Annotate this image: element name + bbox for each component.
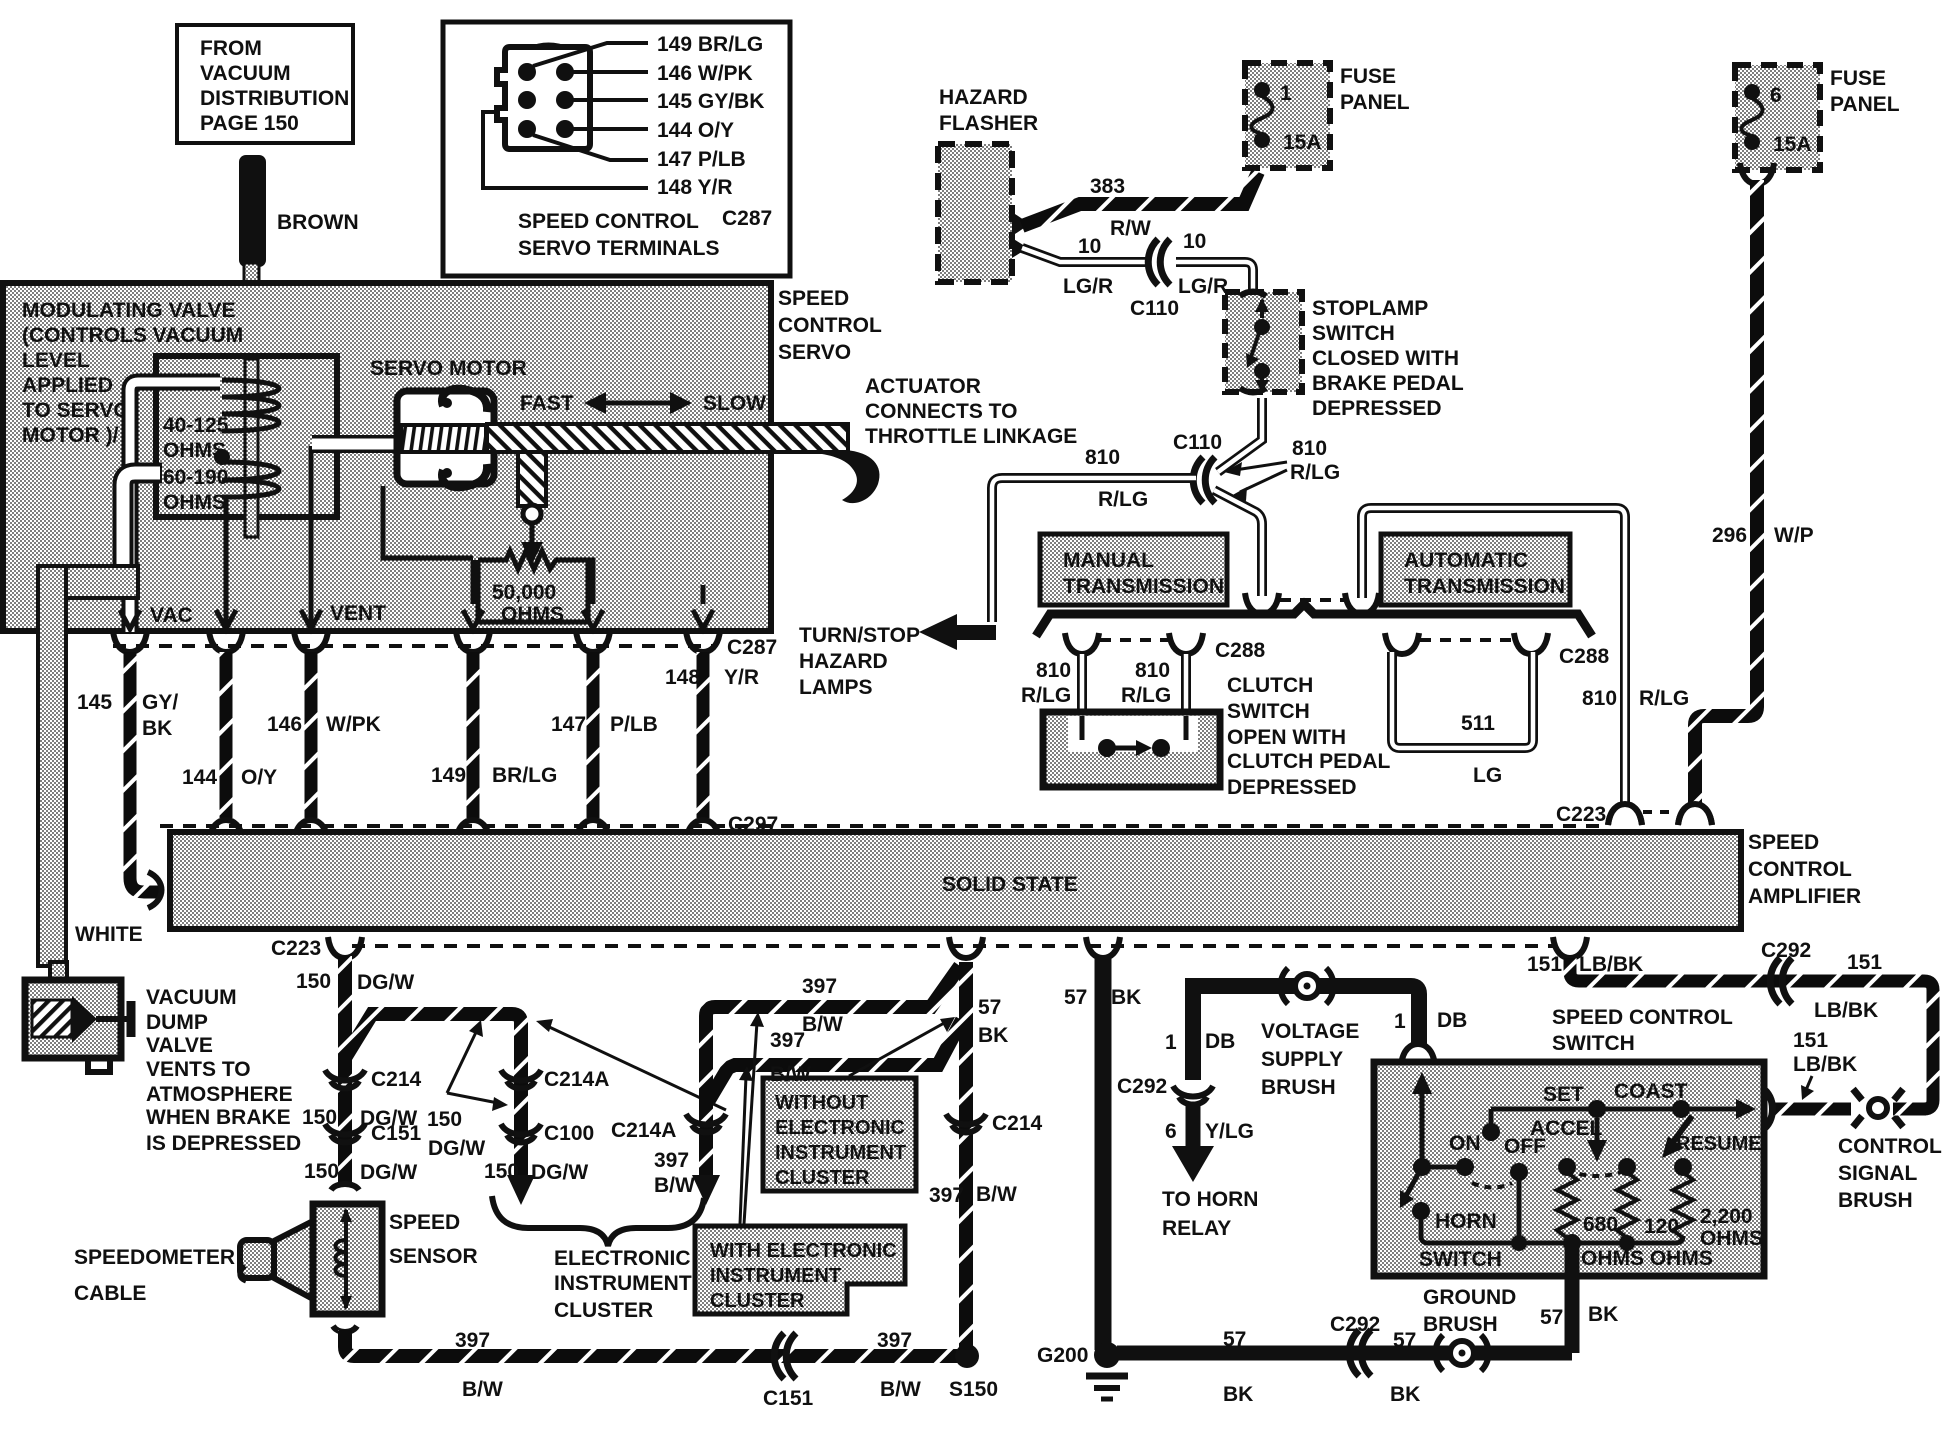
box SPEED CONTROL SERVO TERMINALS C287 [443, 22, 790, 276]
white hose to dump valve [75, 923, 143, 946]
svg-text:10: 10 [1183, 230, 1206, 253]
svg-text:STOPLAMP: STOPLAMP [1312, 297, 1428, 320]
svg-text:VALVE: VALVE [146, 1034, 213, 1057]
connector C287 pin diagram [497, 43, 590, 150]
svg-text:SIGNAL: SIGNAL [1838, 1162, 1918, 1185]
svg-text:C288: C288 [1559, 645, 1610, 668]
wire VAC 1 [130, 382, 220, 628]
svg-text:397: 397 [654, 1149, 689, 1172]
svg-text:BK: BK [1588, 1303, 1618, 1326]
label SPEED CONTROL SWITCH [1552, 1006, 1733, 1055]
ground brush [1423, 1286, 1516, 1371]
svg-text:C292: C292 [1330, 1313, 1380, 1336]
speed control switch box [1374, 1044, 1764, 1276]
svg-text:SPEED: SPEED [1748, 831, 1819, 854]
svg-text:VAC: VAC [150, 604, 193, 627]
svg-text:BK: BK [978, 1024, 1008, 1047]
label VACUUM DUMP VALVE [146, 986, 301, 1155]
label CLUTCH SWITCH [1227, 674, 1390, 799]
svg-text:BROWN: BROWN [277, 211, 359, 234]
labels 397 B/W wire2 [770, 1029, 811, 1086]
svg-text:150: 150 [302, 1106, 337, 1129]
label FAST SLOW arrow [520, 392, 766, 415]
label SPEEDOMETER CABLE [74, 1246, 235, 1305]
wire 57 BK ground run [1117, 1313, 1572, 1406]
svg-text:CLUTCH PEDAL: CLUTCH PEDAL [1227, 750, 1390, 773]
svg-text:RESUME: RESUME [1676, 1133, 1762, 1155]
svg-text:C287: C287 [722, 207, 772, 230]
C288 forks automatic [1385, 633, 1610, 668]
wire 397 B/W bottom [333, 1326, 958, 1410]
svg-text:RELAY: RELAY [1162, 1217, 1231, 1240]
svg-text:DB: DB [1437, 1009, 1467, 1032]
svg-text:810: 810 [1135, 659, 1170, 682]
wire 397 B/W lower link [709, 1020, 962, 1100]
svg-text:DEPRESSED: DEPRESSED [1312, 397, 1442, 420]
svg-text:BK: BK [1390, 1383, 1420, 1406]
svg-text:TO HORN: TO HORN [1162, 1188, 1258, 1211]
wires C288 to clutch switch [1021, 654, 1186, 714]
svg-text:511: 511 [1461, 712, 1495, 735]
svg-text:149: 149 [431, 764, 466, 787]
annotation arrow WITHOUT cluster [849, 1017, 955, 1076]
svg-text:IS DEPRESSED: IS DEPRESSED [146, 1132, 301, 1155]
wire 57 BK from switch [1540, 1248, 1618, 1353]
svg-text:SWITCH: SWITCH [1227, 700, 1310, 723]
svg-text:CONNECTS TO: CONNECTS TO [865, 400, 1017, 423]
white hose elbow [38, 566, 138, 966]
label SPEED SENSOR [389, 1211, 478, 1268]
svg-text:WITH ELECTRONIC: WITH ELECTRONIC [710, 1240, 897, 1262]
connector C292 to horn [1117, 1075, 1254, 1182]
wire 147 P/LB [587, 652, 600, 818]
svg-text:COAST: COAST [1614, 1080, 1688, 1103]
svg-text:W/PK: W/PK [326, 713, 381, 736]
svg-text:C288: C288 [1215, 639, 1266, 662]
svg-text:B/W: B/W [880, 1378, 921, 1401]
svg-text:810: 810 [1085, 446, 1120, 469]
label 151 LB/BK arrow [1793, 1029, 1857, 1100]
label ACTUATOR CONNECTS TO THROTTLE LINKAGE [865, 375, 1077, 448]
svg-text:6: 6 [1770, 84, 1782, 107]
svg-text:WHITE: WHITE [75, 923, 143, 946]
svg-text:C223: C223 [1556, 803, 1606, 826]
annotation 150 DG/W arrows [427, 1020, 508, 1160]
svg-text:LEVEL: LEVEL [22, 349, 90, 372]
wire 144 O/Y [220, 652, 233, 818]
svg-text:APPLIED: APPLIED [22, 374, 113, 397]
svg-text:OHMS: OHMS [501, 603, 564, 626]
svg-text:60-190: 60-190 [163, 466, 228, 489]
transmission bus bar [1036, 604, 1592, 636]
svg-text:FAST: FAST [520, 392, 574, 415]
svg-text:SERVO: SERVO [778, 341, 851, 364]
actuator shaft [487, 424, 848, 452]
svg-text:BRUSH: BRUSH [1261, 1076, 1336, 1099]
svg-text:50,000: 50,000 [492, 581, 556, 604]
svg-text:(CONTROLS VACUUM: (CONTROLS VACUUM [22, 324, 243, 347]
svg-text:150: 150 [427, 1108, 462, 1131]
svg-text:C110: C110 [1130, 297, 1179, 320]
svg-text:VACUUM: VACUUM [146, 986, 237, 1009]
svg-text:146: 146 [267, 713, 302, 736]
svg-text:DG/W: DG/W [428, 1137, 485, 1160]
svg-text:DISTRIBUTION: DISTRIBUTION [200, 87, 349, 110]
pin leader lines [483, 43, 648, 188]
clutch switch [1043, 712, 1220, 787]
svg-text:AUTOMATIC: AUTOMATIC [1404, 549, 1528, 572]
connector C214A second [611, 1114, 726, 1205]
svg-text:146 W/PK: 146 W/PK [657, 62, 753, 85]
wire 148 Y/R [697, 652, 710, 818]
ground G200 [1037, 1342, 1128, 1399]
annotation arrows WITH cluster [739, 1012, 764, 1224]
hose through coils [245, 359, 258, 537]
svg-text:R/LG: R/LG [1021, 684, 1071, 707]
svg-text:1: 1 [1280, 82, 1292, 105]
manual transmission box [1040, 534, 1227, 605]
svg-text:BR/LG: BR/LG [492, 764, 557, 787]
svg-text:GROUND: GROUND [1423, 1286, 1516, 1309]
wire 145 GY/BK [130, 652, 162, 892]
svg-text:GY/: GY/ [142, 691, 178, 714]
actuator hook [822, 450, 880, 503]
svg-text:FLASHER: FLASHER [939, 112, 1038, 135]
label SPEED CONTROL SERVO [778, 287, 882, 364]
svg-text:CONTROL: CONTROL [1748, 858, 1852, 881]
svg-text:151: 151 [1847, 951, 1882, 974]
svg-text:BRAKE PEDAL: BRAKE PEDAL [1312, 372, 1464, 395]
svg-text:ELECTRONIC: ELECTRONIC [554, 1247, 691, 1270]
svg-text:SWITCH: SWITCH [1419, 1248, 1502, 1271]
svg-text:C287: C287 [727, 636, 777, 659]
svg-text:INSTRUMENT: INSTRUMENT [554, 1272, 692, 1295]
wire 383 R/W [1022, 172, 1258, 240]
svg-text:151: 151 [1527, 953, 1562, 976]
svg-text:145: 145 [77, 691, 112, 714]
svg-text:40-125: 40-125 [163, 414, 229, 437]
svg-text:PANEL: PANEL [1340, 91, 1410, 114]
svg-text:HAZARD: HAZARD [799, 650, 888, 673]
stoplamp branch arrows at bus [1245, 593, 1379, 614]
switch internals [1400, 1072, 1546, 1271]
svg-text:57: 57 [1064, 986, 1087, 1009]
label VOLTAGE SUPPLY BRUSH [1261, 1020, 1359, 1099]
fuse panel 1 [1245, 63, 1410, 168]
fuse panel 2 [1735, 65, 1900, 170]
svg-text:LB/BK: LB/BK [1579, 953, 1643, 976]
accel wiper arrow [1567, 1118, 1627, 1176]
resistor 120 ohms [1617, 1158, 1679, 1238]
svg-text:SPEED: SPEED [389, 1211, 460, 1234]
svg-text:C292: C292 [1117, 1075, 1167, 1098]
svg-text:BRUSH: BRUSH [1423, 1313, 1498, 1336]
svg-text:397: 397 [802, 975, 837, 998]
svg-text:P/LB: P/LB [610, 713, 658, 736]
svg-text:SERVO MOTOR: SERVO MOTOR [370, 357, 527, 380]
svg-text:DG/W: DG/W [360, 1161, 417, 1184]
svg-text:810: 810 [1582, 687, 1617, 710]
svg-text:VACUUM: VACUUM [200, 62, 291, 85]
wire 296 W/P [1678, 163, 1814, 825]
svg-text:O/Y: O/Y [241, 766, 277, 789]
svg-text:BK: BK [1111, 986, 1141, 1009]
wire labels left bank [77, 666, 759, 789]
svg-text:MODULATING VALVE: MODULATING VALVE [22, 299, 236, 322]
svg-text:DEPRESSED: DEPRESSED [1227, 776, 1357, 799]
svg-text:DUMP: DUMP [146, 1011, 208, 1034]
servo motor [397, 389, 494, 487]
arrows at modulating box bottom [120, 560, 713, 629]
svg-text:149 BR/LG: 149 BR/LG [657, 33, 763, 56]
svg-text:SPEED CONTROL: SPEED CONTROL [1552, 1006, 1733, 1029]
svg-text:VOLTAGE: VOLTAGE [1261, 1020, 1359, 1043]
connector row C297 dashed [160, 824, 1605, 828]
svg-text:397: 397 [770, 1029, 805, 1052]
svg-text:148: 148 [665, 666, 700, 689]
arrow to turn/stop hazard lamps [799, 614, 996, 699]
svg-text:397: 397 [877, 1329, 912, 1352]
svg-text:C214: C214 [992, 1112, 1043, 1135]
svg-text:CLOSED WITH: CLOSED WITH [1312, 347, 1459, 370]
automatic transmission box [1381, 534, 1570, 605]
svg-text:TRANSMISSION: TRANSMISSION [1063, 575, 1224, 598]
set coast line [1482, 1080, 1762, 1155]
svg-text:57: 57 [1393, 1329, 1416, 1352]
modulating valve box [3, 283, 771, 631]
svg-text:145 GY/BK: 145 GY/BK [657, 90, 764, 113]
wire stoplamp to C110 [1085, 398, 1340, 511]
annotation C214A arrow [545, 1025, 726, 1110]
svg-text:R/LG: R/LG [1290, 461, 1340, 484]
label TO HORN RELAY [1162, 1188, 1258, 1240]
coil upper 40-125 ohms [222, 380, 279, 431]
svg-text:R/LG: R/LG [1098, 488, 1148, 511]
svg-text:144: 144 [182, 766, 217, 789]
svg-text:ELECTRONIC: ELECTRONIC [775, 1117, 905, 1139]
svg-text:SPEEDOMETER: SPEEDOMETER [74, 1246, 235, 1269]
wire 810 R/LG to turn/stop [992, 478, 1196, 622]
wire servo to resistor arrow [383, 486, 473, 558]
label SPEED CONTROL AMPLIFIER [1748, 831, 1861, 908]
svg-text:HORN: HORN [1435, 1210, 1497, 1233]
svg-text:WHEN BRAKE: WHEN BRAKE [146, 1106, 291, 1129]
svg-text:DB: DB [1205, 1030, 1235, 1053]
svg-text:1: 1 [1165, 1031, 1177, 1054]
C297 row forks [209, 813, 778, 841]
svg-text:C151: C151 [763, 1387, 814, 1410]
svg-text:WITHOUT: WITHOUT [775, 1092, 868, 1114]
C223 forks right [1556, 803, 1712, 826]
hazard flasher [938, 86, 1038, 282]
svg-text:C214A: C214A [611, 1119, 676, 1142]
wire to automatic bypass [1362, 508, 1625, 804]
svg-text:147 P/LB: 147 P/LB [657, 148, 746, 171]
wire 10 LG/R [1022, 230, 1253, 320]
svg-text:ACCEL: ACCEL [1530, 1117, 1603, 1140]
C287 row forks [113, 631, 777, 659]
svg-text:57: 57 [978, 996, 1001, 1019]
svg-text:BK: BK [1223, 1383, 1253, 1406]
svg-text:SOLID STATE: SOLID STATE [942, 873, 1078, 896]
svg-text:G200: G200 [1037, 1344, 1088, 1367]
voltage supply feed 1 DB [1165, 968, 1467, 1080]
box WITHOUT ELECTRONIC INSTRUMENT CLUSTER [763, 1078, 916, 1191]
box FROM VACUUM DISTRIBUTION PAGE 150 [177, 25, 353, 143]
svg-text:TURN/STOP: TURN/STOP [799, 624, 920, 647]
resume wiper arrow [1662, 1116, 1692, 1158]
svg-text:LB/BK: LB/BK [1793, 1053, 1857, 1076]
speed sensor [240, 1204, 382, 1314]
wire 810 R/LG to C288 left arrow [1214, 490, 1262, 596]
amplifier output forks [271, 937, 1587, 960]
svg-text:B/W: B/W [976, 1183, 1017, 1206]
vacuum hose BROWN [239, 155, 359, 543]
dashed row below amplifier [352, 944, 1556, 948]
svg-text:ON: ON [1449, 1132, 1481, 1155]
svg-text:Y/R: Y/R [724, 666, 759, 689]
label CONTROL SIGNAL BRUSH [1838, 1135, 1942, 1212]
svg-text:CLUTCH: CLUTCH [1227, 674, 1313, 697]
svg-text:MOTOR )/: MOTOR )/ [22, 424, 119, 447]
svg-text:SPEED: SPEED [778, 287, 849, 310]
svg-text:TO SERVO: TO SERVO [22, 399, 130, 422]
coil lower 60-190 ohms [222, 462, 279, 497]
svg-text:HAZARD: HAZARD [939, 86, 1028, 109]
svg-text:57: 57 [1540, 1306, 1563, 1329]
C288 forks manual [1065, 633, 1266, 662]
wire VAC 2 [223, 497, 226, 628]
svg-text:C214A: C214A [544, 1068, 609, 1091]
svg-text:120: 120 [1644, 1215, 1679, 1238]
wire 146 W/PK [305, 652, 318, 818]
svg-text:R/LG: R/LG [1121, 684, 1171, 707]
svg-text:AMPLIFIER: AMPLIFIER [1748, 885, 1861, 908]
svg-text:FROM: FROM [200, 37, 262, 60]
connector row C287 dashed [113, 644, 714, 648]
svg-text:DG/W: DG/W [531, 1161, 588, 1184]
labels 810 R/LG right [1582, 687, 1689, 825]
box WITH ELECTRONIC INSTRUMENT CLUSTER [695, 1226, 905, 1314]
svg-text:LG/R: LG/R [1063, 275, 1113, 298]
svg-text:148 Y/R: 148 Y/R [657, 176, 733, 199]
svg-text:LAMPS: LAMPS [799, 676, 873, 699]
svg-text:S150: S150 [949, 1378, 998, 1401]
label ELECTRONIC INSTRUMENT CLUSTER [554, 1247, 692, 1322]
svg-text:VENT: VENT [330, 602, 386, 625]
control signal brush [1762, 1088, 1926, 1130]
svg-text:W/P: W/P [1774, 524, 1814, 547]
wire VENT [309, 446, 314, 628]
svg-text:SUPPLY: SUPPLY [1261, 1048, 1343, 1071]
svg-text:THROTTLE LINKAGE: THROTTLE LINKAGE [865, 425, 1077, 448]
svg-text:C100: C100 [544, 1122, 594, 1145]
resistor 2200 ohms [1673, 1158, 1763, 1250]
vacuum dump valve [25, 962, 131, 1072]
svg-text:SET: SET [1543, 1083, 1584, 1106]
svg-text:SLOW: SLOW [703, 392, 766, 415]
svg-text:2,200: 2,200 [1700, 1205, 1753, 1228]
svg-text:ATMOSPHERE: ATMOSPHERE [146, 1083, 293, 1106]
svg-text:SERVO TERMINALS: SERVO TERMINALS [518, 237, 719, 260]
svg-text:B/W: B/W [770, 1063, 811, 1086]
svg-text:6: 6 [1165, 1120, 1177, 1143]
svg-text:LG/R: LG/R [1178, 275, 1228, 298]
wire 397 B/W riser [929, 962, 1043, 1350]
svg-text:810: 810 [1292, 437, 1327, 460]
pin labels [657, 33, 764, 199]
svg-text:10: 10 [1078, 235, 1101, 258]
svg-text:BRUSH: BRUSH [1838, 1189, 1913, 1212]
svg-text:OPEN WITH: OPEN WITH [1227, 726, 1346, 749]
svg-text:MANUAL: MANUAL [1063, 549, 1154, 572]
svg-text:CLUSTER: CLUSTER [554, 1299, 653, 1322]
brace electronic instrument cluster [492, 1196, 704, 1246]
svg-text:57: 57 [1223, 1328, 1246, 1351]
svg-text:C110: C110 [1173, 431, 1222, 454]
svg-text:FUSE: FUSE [1340, 65, 1396, 88]
svg-text:1: 1 [1394, 1010, 1406, 1033]
svg-text:SPEED CONTROL: SPEED CONTROL [518, 210, 699, 233]
resistor 50000 ohms [478, 551, 588, 626]
svg-text:R/LG: R/LG [1639, 687, 1689, 710]
svg-text:BK: BK [142, 717, 172, 740]
control signal wire 151 LB/BK [1527, 939, 1933, 1109]
svg-text:296: 296 [1712, 524, 1747, 547]
svg-text:680: 680 [1583, 1213, 1618, 1236]
svg-text:DG/W: DG/W [357, 971, 414, 994]
svg-text:Y/LG: Y/LG [1205, 1120, 1254, 1143]
wire 57 BK trunk [1064, 958, 1141, 1350]
svg-text:150: 150 [304, 1160, 339, 1183]
jumper loop 511 LG [1392, 652, 1533, 787]
wire 150 DG/W main [296, 956, 422, 1190]
svg-text:CONTROL: CONTROL [1838, 1135, 1942, 1158]
svg-text:OHMS: OHMS [163, 491, 226, 514]
svg-text:15A: 15A [1283, 131, 1322, 154]
shaft drop to resistor [518, 452, 546, 564]
resistor 680 ohms [1557, 1158, 1618, 1238]
label STOPLAMP SWITCH [1312, 297, 1464, 420]
svg-text:15A: 15A [1773, 133, 1812, 156]
svg-text:397: 397 [929, 1184, 964, 1207]
svg-text:B/W: B/W [802, 1013, 843, 1036]
svg-text:C223: C223 [271, 937, 321, 960]
junction dot center tap [214, 449, 230, 465]
svg-text:CLUSTER: CLUSTER [775, 1167, 870, 1189]
svg-text:383: 383 [1090, 175, 1125, 198]
svg-text:B/W: B/W [654, 1174, 695, 1197]
svg-text:TRANSMISSION: TRANSMISSION [1404, 575, 1565, 598]
svg-text:SWITCH: SWITCH [1312, 322, 1395, 345]
wire 150 DG/W branch [345, 1014, 609, 1205]
svg-text:ACTUATOR: ACTUATOR [865, 375, 981, 398]
svg-text:C151: C151 [371, 1122, 422, 1145]
svg-text:VENTS TO: VENTS TO [146, 1058, 251, 1081]
wire 397 B/W upper link [706, 966, 960, 1178]
speed control amplifier SOLID STATE [148, 832, 1741, 929]
svg-text:810: 810 [1036, 659, 1071, 682]
switch bottom bus [1511, 1234, 1713, 1294]
svg-text:SWITCH: SWITCH [1552, 1032, 1635, 1055]
svg-text:PANEL: PANEL [1830, 93, 1900, 116]
svg-text:C292: C292 [1761, 939, 1811, 962]
vacuum passage to servo [123, 444, 400, 592]
svg-text:INSTRUMENT: INSTRUMENT [775, 1142, 906, 1164]
splice S150 [949, 1344, 998, 1401]
svg-text:150: 150 [296, 970, 331, 993]
svg-text:397: 397 [455, 1329, 490, 1352]
